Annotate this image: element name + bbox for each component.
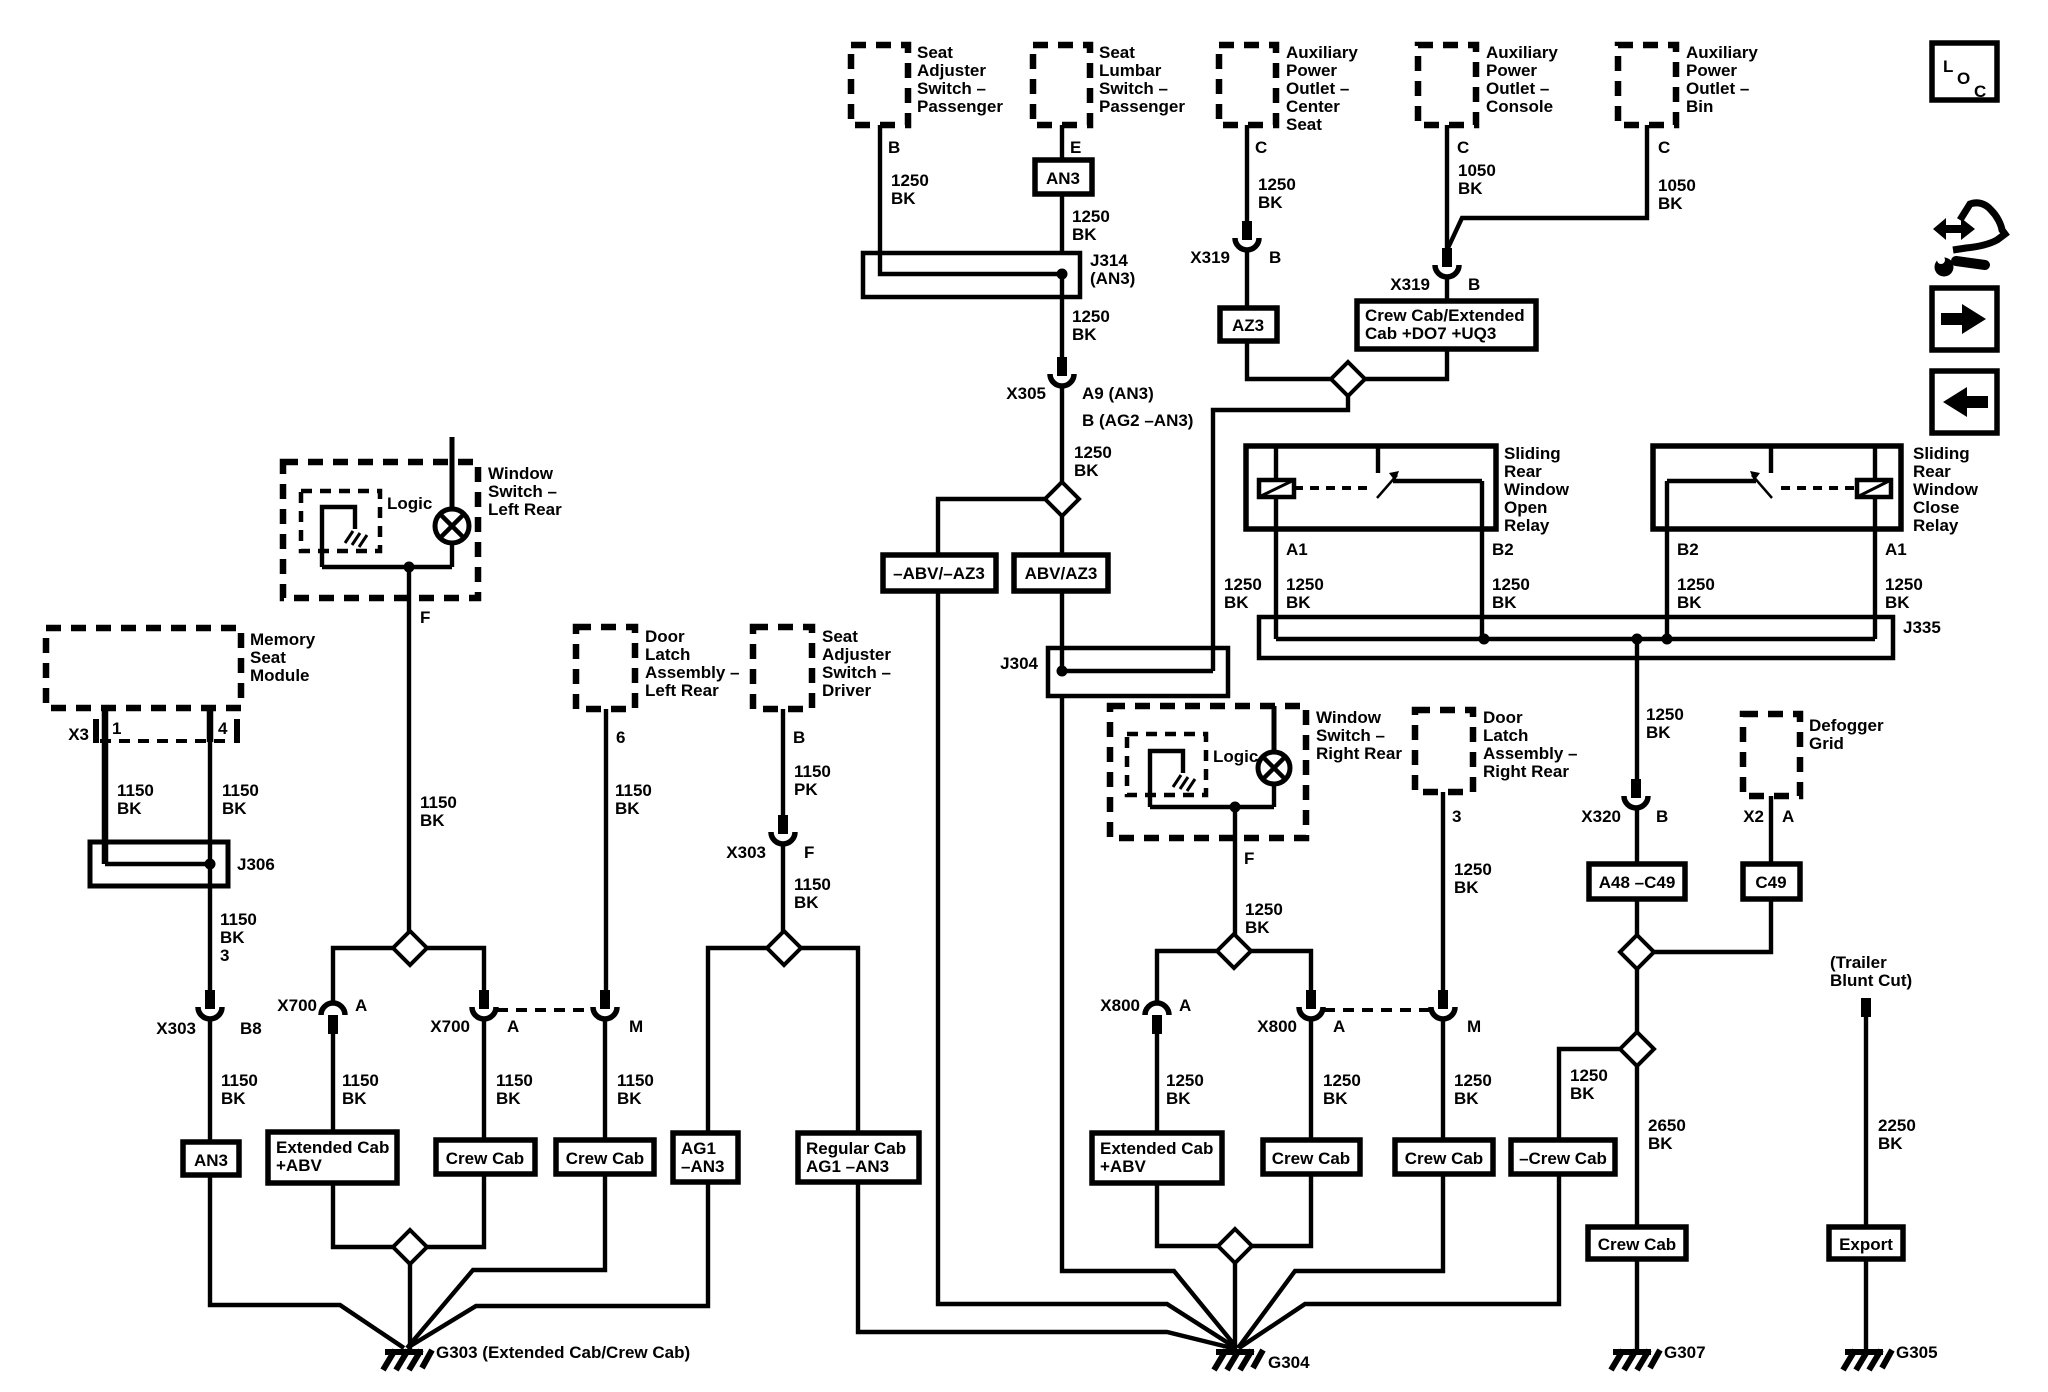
svg-text:X303: X303 [156, 1019, 196, 1038]
connector Auxiliary Power Outlet - Center Seat [1219, 43, 1358, 134]
option box AG1 -AN3 [673, 1133, 738, 1182]
wire from J304 down to ground G304 [1062, 696, 1237, 1348]
wire from driver diamond to Regular Cab option [801, 948, 858, 1133]
svg-text:1150: 1150 [420, 793, 457, 812]
svg-text:E: E [1070, 138, 1081, 157]
wire 1250 BK from door latch right rear to M connector [1443, 792, 1492, 990]
svg-text:B: B [1656, 807, 1668, 826]
logic block inside right rear window switch [1127, 734, 1258, 795]
service tool icon (double arrow, curved arrow, wrench) [1933, 203, 2005, 277]
connector X320 pin B [1581, 779, 1668, 826]
svg-text:Seat: Seat [917, 43, 953, 62]
svg-text:X303: X303 [726, 843, 766, 862]
svg-text:1250: 1250 [1072, 307, 1110, 326]
svg-text:Outlet –: Outlet – [1686, 79, 1749, 98]
wire from X319 right to Crew Cab/Extended Cab option box [1445, 277, 1449, 301]
svg-text:1250: 1250 [1492, 575, 1530, 594]
svg-text:Auxiliary: Auxiliary [1686, 43, 1758, 62]
svg-text:B: B [888, 138, 900, 157]
option box Crew Cab (left col first) [436, 1140, 535, 1174]
svg-text:Switch –: Switch – [488, 482, 557, 501]
svg-text:BK: BK [1166, 1089, 1191, 1108]
wire from diamond to -ABV/-AZ3 option [938, 499, 1045, 555]
splice diamond below A48 -C49 [1620, 935, 1654, 969]
svg-text:BK: BK [1245, 918, 1270, 937]
svg-text:B2: B2 [1677, 540, 1699, 559]
svg-text:A: A [1782, 807, 1794, 826]
component Window Switch - Left Rear (dashed) [283, 462, 562, 598]
wire from driver diamond to AG1 -AN3 option [708, 948, 767, 1133]
svg-text:Crew Cab: Crew Cab [1598, 1235, 1676, 1254]
svg-text:M: M [629, 1017, 643, 1036]
svg-text:3: 3 [220, 946, 229, 965]
svg-text:X700: X700 [277, 996, 317, 1015]
wire 1150 BK from X303 B8 to AN3 option [210, 1019, 258, 1142]
svg-text:A: A [507, 1017, 519, 1036]
svg-text:BK: BK [1323, 1089, 1348, 1108]
svg-text:G305: G305 [1896, 1343, 1938, 1362]
splice diamond below left rear window switch [393, 931, 427, 965]
svg-text:BK: BK [1072, 325, 1097, 344]
svg-text:BK: BK [1492, 593, 1517, 612]
svg-text:1150: 1150 [617, 1071, 654, 1090]
svg-text:BK: BK [891, 189, 916, 208]
wire from AZ3 box to option diamond [1247, 341, 1331, 379]
connector X700 pin A (left half) [277, 996, 367, 1034]
internal wire to pin F right rear [1150, 802, 1274, 813]
svg-text:Seat: Seat [1099, 43, 1135, 62]
svg-text:Switch –: Switch – [822, 663, 891, 682]
svg-text:Seat: Seat [250, 648, 286, 667]
svg-text:Close: Close [1913, 498, 1959, 517]
splice J306 [90, 842, 275, 886]
svg-text:BK: BK [1458, 179, 1483, 198]
svg-text:Logic: Logic [387, 494, 432, 513]
wire 1250 BK from Center Seat outlet to X319 [1247, 125, 1296, 221]
svg-text:L: L [1943, 57, 1953, 76]
component Seat Adjuster Switch - Driver (dashed) [753, 627, 891, 709]
connector X303 pin F [726, 815, 814, 862]
svg-text:Relay: Relay [1913, 516, 1959, 535]
wire 1250 BK close relay B2 to J335 [1667, 481, 1715, 639]
component Door Latch Assembly - Right Rear (dashed) [1415, 708, 1578, 792]
svg-text:Window: Window [1504, 480, 1570, 499]
indicator lamp right rear [1258, 706, 1290, 807]
svg-text:1250: 1250 [1224, 575, 1262, 594]
svg-text:1150: 1150 [615, 781, 652, 800]
wire 2250 BK from blunt cut to Export option [1866, 1017, 1916, 1227]
connector X319 pin B (left) [1190, 221, 1281, 267]
wire 1150 BK from memory seat pin 4 through J306 [210, 708, 259, 990]
component Memory Seat Module (dashed) [46, 628, 316, 708]
svg-text:BK: BK [615, 799, 640, 818]
svg-text:Rear: Rear [1504, 462, 1542, 481]
wire from diamond to X800 left [1157, 951, 1217, 1003]
indicator lamp left rear [435, 462, 469, 567]
ground G304 [1214, 1350, 1310, 1372]
trailer blunt cut label [1830, 953, 1912, 990]
forward arrow box [1932, 288, 1997, 350]
svg-text:B2: B2 [1492, 540, 1514, 559]
svg-text:Memory: Memory [250, 630, 316, 649]
svg-text:1250: 1250 [1677, 575, 1715, 594]
svg-text:F: F [420, 608, 430, 627]
svg-text:1250: 1250 [1323, 1071, 1361, 1090]
connector X319 pin B (right) [1390, 248, 1480, 294]
svg-text:Driver: Driver [822, 681, 872, 700]
svg-text:ABV/AZ3: ABV/AZ3 [1025, 564, 1098, 583]
wire from Extended Cab +ABV to lower diamond [333, 1183, 393, 1247]
wire from X320 to A48 -C49 option [1635, 808, 1639, 864]
svg-text:BK: BK [1454, 878, 1479, 897]
svg-text:Right Rear: Right Rear [1483, 762, 1569, 781]
wire from second Crew Cab to ground G303 [407, 1174, 605, 1348]
svg-text:Latch: Latch [1483, 726, 1528, 745]
svg-text:AG1 –AN3: AG1 –AN3 [806, 1157, 889, 1176]
svg-text:Switch –: Switch – [1316, 726, 1385, 745]
wire 1150 BK from door latch left rear to M connector [606, 709, 652, 990]
connector X800 pin A (left half) [1100, 996, 1191, 1034]
svg-text:Door: Door [1483, 708, 1523, 727]
svg-text:1250: 1250 [1286, 575, 1324, 594]
svg-text:BK: BK [220, 928, 245, 947]
svg-text:X800: X800 [1257, 1017, 1297, 1036]
svg-text:G304: G304 [1268, 1353, 1310, 1372]
dashed link wire X800 to M right [1324, 1008, 1431, 1012]
svg-text:A: A [1179, 996, 1191, 1015]
connector X800 pin A (right half) [1257, 990, 1345, 1036]
wire between diamonds right column [1635, 969, 1639, 1032]
svg-text:Adjuster: Adjuster [917, 61, 986, 80]
svg-text:Outlet –: Outlet – [1286, 79, 1349, 98]
wire 1250 BK from AN3 box to J314 [1062, 194, 1110, 253]
svg-text:G307: G307 [1664, 1343, 1706, 1362]
svg-text:Sliding: Sliding [1504, 444, 1561, 463]
svg-text:AZ3: AZ3 [1232, 316, 1264, 335]
svg-text:Seat: Seat [1286, 115, 1322, 134]
svg-text:Center: Center [1286, 97, 1340, 116]
option box Crew Cab (left col second) [556, 1140, 654, 1174]
splice diamond below right rear window switch [1217, 934, 1251, 968]
svg-text:Export: Export [1839, 1235, 1893, 1254]
svg-text:AN3: AN3 [1046, 169, 1080, 188]
splice J314 (AN3) [863, 251, 1135, 297]
wire from -Crew Cab to ground G304 [1239, 1174, 1559, 1348]
svg-text:BK: BK [1677, 593, 1702, 612]
option box Crew Cab (above G307) [1588, 1227, 1686, 1259]
wire from Crew Cab to lower diamond [427, 1174, 484, 1247]
svg-text:–ABV/–AZ3: –ABV/–AZ3 [893, 564, 985, 583]
svg-text:A9 (AN3): A9 (AN3) [1082, 384, 1154, 403]
svg-text:1250: 1250 [1258, 175, 1296, 194]
wire from Extended Cab +ABV right to lower diamond [1157, 1183, 1218, 1246]
svg-text:1150: 1150 [220, 910, 257, 929]
wire 1150 BK from memory seat pin 1 to J306 [105, 708, 154, 864]
svg-text:Window: Window [488, 464, 554, 483]
wire 1250 BK close relay A1 to J335 [1875, 497, 1923, 639]
lower splice diamond right [1218, 1229, 1252, 1263]
svg-text:1250: 1250 [1454, 1071, 1492, 1090]
svg-text:1250: 1250 [1454, 860, 1492, 879]
component Door Latch Assembly - Left Rear (dashed) [576, 627, 740, 709]
wire from ABV/AZ3 to splice J304 [1060, 591, 1064, 648]
svg-text:F: F [1244, 849, 1254, 868]
option box AN3 [1035, 160, 1092, 194]
svg-text:C: C [1658, 138, 1670, 157]
svg-text:Sliding: Sliding [1913, 444, 1970, 463]
svg-text:Crew Cab: Crew Cab [1405, 1149, 1483, 1168]
wire from second Crew Cab right to ground G304 [1238, 1174, 1443, 1348]
svg-text:O: O [1957, 69, 1970, 88]
svg-text:1250: 1250 [1646, 705, 1684, 724]
svg-text:1250: 1250 [891, 171, 929, 190]
relay Sliding Rear Window Close Relay [1653, 444, 1979, 535]
splice J335 [1259, 617, 1941, 658]
wire from AG1 -AN3 to ground G303 [407, 1182, 708, 1348]
wire from diamond to X700 left [333, 948, 393, 1003]
wire 1250 BK from Seat Adjuster Switch pin B to J314 [880, 125, 929, 253]
svg-text:Crew Cab: Crew Cab [566, 1149, 644, 1168]
option box Extended Cab +ABV (left) [268, 1132, 397, 1183]
svg-text:Module: Module [250, 666, 310, 685]
svg-text:Crew Cab: Crew Cab [446, 1149, 524, 1168]
svg-text:Window: Window [1316, 708, 1382, 727]
svg-text:BK: BK [1646, 723, 1671, 742]
wire from upper diamond to X700 right [427, 948, 484, 990]
svg-text:Blunt Cut): Blunt Cut) [1830, 971, 1912, 990]
svg-text:BK: BK [1658, 194, 1683, 213]
svg-text:C: C [1255, 138, 1267, 157]
svg-text:Switch –: Switch – [1099, 79, 1168, 98]
wire stub above left rear window switch [450, 437, 455, 462]
svg-text:1: 1 [112, 719, 121, 738]
wire 1250 BK open relay A1 to J335 [1276, 497, 1324, 639]
svg-text:1150: 1150 [496, 1071, 533, 1090]
svg-text:Outlet –: Outlet – [1486, 79, 1549, 98]
svg-text:BK: BK [1454, 1089, 1479, 1108]
backward arrow box [1932, 371, 1997, 433]
logic block inside left rear window switch [301, 491, 432, 551]
component Window Switch - Right Rear (dashed) [1110, 706, 1402, 838]
svg-text:M: M [1467, 1017, 1481, 1036]
svg-text:Window: Window [1913, 480, 1979, 499]
option box C49 [1743, 864, 1800, 899]
svg-text:1050: 1050 [1458, 161, 1496, 180]
svg-text:B: B [1269, 248, 1281, 267]
svg-text:J306: J306 [237, 855, 275, 874]
option box -Crew Cab [1511, 1140, 1615, 1174]
option box -ABV/-AZ3 [883, 555, 996, 591]
connector M (right column) [1431, 990, 1481, 1036]
svg-text:C49: C49 [1755, 873, 1786, 892]
svg-text:J304: J304 [1000, 654, 1038, 673]
lower splice diamond right column [1620, 1032, 1654, 1066]
svg-text:Seat: Seat [822, 627, 858, 646]
svg-text:1250: 1250 [1074, 443, 1112, 462]
svg-text:BK: BK [1648, 1134, 1673, 1153]
svg-text:B8: B8 [240, 1019, 262, 1038]
wire from J304 splice up to crew cab diamond [1213, 396, 1348, 671]
svg-text:Auxiliary: Auxiliary [1486, 43, 1558, 62]
wire 1250 BK from X800 right to Crew Cab [1311, 1019, 1361, 1140]
svg-text:Switch –: Switch – [917, 79, 986, 98]
svg-text:Grid: Grid [1809, 734, 1844, 753]
svg-text:F: F [804, 843, 814, 862]
svg-text:2250: 2250 [1878, 1116, 1916, 1135]
svg-text:1150: 1150 [794, 762, 831, 781]
svg-text:PK: PK [794, 780, 818, 799]
svg-text:BK: BK [1074, 461, 1099, 480]
wire 1250 BK from J335 to X320 [1637, 639, 1684, 779]
svg-text:1150: 1150 [117, 781, 154, 800]
option box A48 -C49 [1589, 864, 1685, 899]
svg-text:1150: 1150 [342, 1071, 379, 1090]
svg-text:BK: BK [496, 1089, 521, 1108]
wire 1150 BK from left rear window switch pin F to diamond [409, 567, 457, 932]
svg-text:Left Rear: Left Rear [645, 681, 719, 700]
svg-text:C: C [1974, 82, 1986, 101]
wire from lower diamond to ground G303 [408, 1264, 412, 1351]
option box Extended Cab +ABV (right) [1092, 1133, 1222, 1183]
wire from Crew Cab right to lower diamond [1252, 1174, 1311, 1246]
wire 1250 BK from M right to Crew Cab second [1443, 1019, 1492, 1140]
connector X305 pin A9/B [1006, 357, 1193, 430]
svg-text:BK: BK [1258, 193, 1283, 212]
connector X700 pin A (right half) [430, 990, 519, 1036]
svg-text:–Crew Cab: –Crew Cab [1519, 1149, 1607, 1168]
loc reference box [1932, 43, 1997, 101]
svg-text:BK: BK [617, 1089, 642, 1108]
svg-text:Passenger: Passenger [917, 97, 1003, 116]
svg-text:1250: 1250 [1166, 1071, 1204, 1090]
svg-text:1150: 1150 [222, 781, 259, 800]
svg-text:X320: X320 [1581, 807, 1621, 826]
ground G307 [1611, 1343, 1706, 1370]
svg-text:B: B [1468, 275, 1480, 294]
close relay contact [1667, 446, 1857, 498]
internal wire to pin F left rear [322, 562, 452, 573]
svg-text:A1: A1 [1885, 540, 1907, 559]
wire from X319 to AZ3 option box [1245, 250, 1249, 308]
svg-text:B (AG2 –AN3): B (AG2 –AN3) [1082, 411, 1193, 430]
svg-text:1250: 1250 [1885, 575, 1923, 594]
wire from Crew Cab to ground G307 [1635, 1259, 1639, 1351]
wire 1250 BK from right rear window switch to diamond [1235, 807, 1283, 937]
option box AN3 (lower left) [183, 1142, 239, 1175]
svg-text:Cab +DO7 +UQ3: Cab +DO7 +UQ3 [1365, 324, 1496, 343]
wire 1050 BK from Bin outlet joining Console wire [1448, 125, 1696, 248]
svg-text:BK: BK [1885, 593, 1910, 612]
wire 1250 BK open relay B2 to J335 [1482, 481, 1530, 639]
wire 1250 BK from X800 to Extended Cab +ABV right [1157, 1034, 1204, 1133]
svg-text:Assembly –: Assembly – [645, 663, 740, 682]
svg-text:Console: Console [1486, 97, 1553, 116]
connector M (left column) [593, 990, 643, 1036]
svg-text:AG1: AG1 [681, 1139, 716, 1158]
svg-text:Extended Cab: Extended Cab [276, 1138, 389, 1157]
svg-text:BK: BK [1072, 225, 1097, 244]
svg-text:1250: 1250 [1570, 1066, 1608, 1085]
wire from lower diamond to -Crew Cab option [1559, 1049, 1620, 1140]
option box Crew Cab (right col second) [1395, 1140, 1493, 1174]
svg-text:BK: BK [1286, 593, 1311, 612]
wire from AN3 option to ground G303 [210, 1175, 404, 1348]
svg-text:+ABV: +ABV [1100, 1157, 1146, 1176]
svg-text:AN3: AN3 [194, 1151, 228, 1170]
svg-text:Rear: Rear [1913, 462, 1951, 481]
wire 1150 BK from X700 right to Crew Cab [484, 1019, 533, 1140]
svg-text:J335: J335 [1903, 618, 1941, 637]
wire from Seat Lumbar Switch pin E to AN3 option box [1060, 125, 1064, 160]
svg-text:1150: 1150 [794, 875, 831, 894]
component Defogger Grid (dashed) [1743, 714, 1884, 796]
svg-text:2650: 2650 [1648, 1116, 1686, 1135]
svg-text:X2: X2 [1743, 807, 1764, 826]
wire from defogger grid to C49 option [1769, 796, 1773, 864]
splice J304 [1000, 648, 1228, 696]
svg-text:BK: BK [1878, 1134, 1903, 1153]
svg-text:BK: BK [117, 799, 142, 818]
connector Seat Lumbar Switch - Passenger [1033, 43, 1185, 125]
connector Seat Adjuster Switch - Passenger [851, 43, 1003, 125]
svg-text:BK: BK [420, 811, 445, 830]
open relay contact [1294, 446, 1482, 498]
svg-text:Bin: Bin [1686, 97, 1713, 116]
svg-text:A48 –C49: A48 –C49 [1599, 873, 1676, 892]
svg-text:BK: BK [222, 799, 247, 818]
wire label 1150 BK 3 below J306 [220, 910, 257, 965]
svg-text:Power: Power [1286, 61, 1337, 80]
option box Export [1829, 1227, 1903, 1259]
option box Crew Cab/Extended Cab +DO7 +UQ3 [1357, 301, 1536, 349]
lower splice diamond left [393, 1230, 427, 1264]
svg-text:Lumbar: Lumbar [1099, 61, 1162, 80]
svg-text:Open: Open [1504, 498, 1547, 517]
svg-text:1150: 1150 [221, 1071, 258, 1090]
svg-text:Passenger: Passenger [1099, 97, 1185, 116]
svg-text:BK: BK [1570, 1084, 1595, 1103]
svg-text:Latch: Latch [645, 645, 690, 664]
wire from C49 to diamond [1654, 899, 1771, 952]
wire from option box to option diamond [1365, 349, 1447, 379]
svg-text:Crew Cab: Crew Cab [1272, 1149, 1350, 1168]
svg-text:Regular Cab: Regular Cab [806, 1139, 906, 1158]
svg-text:A: A [355, 996, 367, 1015]
svg-text:X3: X3 [68, 725, 89, 744]
close relay coil [1857, 446, 1891, 497]
svg-text:Auxiliary: Auxiliary [1286, 43, 1358, 62]
wire 2650 BK from lower diamond to Crew Cab option [1637, 1066, 1686, 1227]
svg-text:X319: X319 [1390, 275, 1430, 294]
svg-text:–AN3: –AN3 [681, 1157, 724, 1176]
connector X3 pin row of memory seat module [68, 719, 237, 744]
svg-text:X800: X800 [1100, 996, 1140, 1015]
svg-text:Relay: Relay [1504, 516, 1550, 535]
splice diamond below seat adjuster driver [767, 931, 801, 965]
svg-text:J314: J314 [1090, 251, 1128, 270]
connector Auxiliary Power Outlet - Console [1418, 43, 1558, 125]
svg-text:Assembly –: Assembly – [1483, 744, 1578, 763]
svg-text:BK: BK [794, 893, 819, 912]
wire 1250 BK from J314 to X305 [1062, 274, 1110, 357]
wire from lower diamond to ground G304 [1233, 1263, 1237, 1351]
svg-text:(AN3): (AN3) [1090, 269, 1135, 288]
ground G305 [1843, 1343, 1938, 1370]
wire from diamond to X800 right [1251, 951, 1311, 990]
svg-text:Door: Door [645, 627, 685, 646]
svg-text:A1: A1 [1286, 540, 1308, 559]
wire from Export to ground G305 [1864, 1259, 1868, 1351]
